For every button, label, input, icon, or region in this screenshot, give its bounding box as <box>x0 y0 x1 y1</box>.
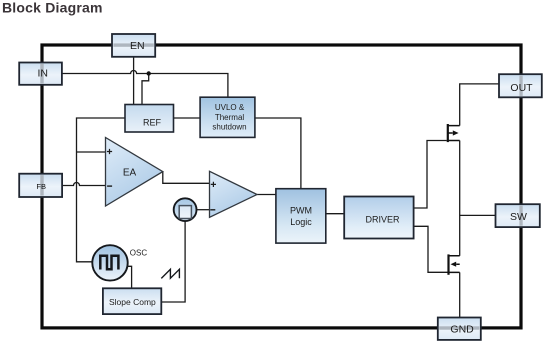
wire OSC to Slope Comp <box>127 266 132 288</box>
wire SW node to SW box <box>460 214 496 216</box>
svg-text:IN: IN <box>37 68 48 80</box>
wire REF to UVLO <box>174 117 201 119</box>
svg-text:Logic: Logic <box>290 217 312 227</box>
wire EN down to REF <box>133 57 135 105</box>
svg-text:DRIVER: DRIVER <box>365 215 400 225</box>
comparator U2 <box>210 171 258 217</box>
box SW <box>496 204 540 227</box>
box Slope Comp <box>103 288 161 314</box>
transistor Q1 <box>448 124 460 142</box>
op-amp EA <box>106 138 163 207</box>
wire Slope Comp to summer <box>161 221 185 302</box>
svg-text:Thermal: Thermal <box>215 113 245 122</box>
box REF <box>125 105 174 133</box>
svg-text:shutdown: shutdown <box>212 123 246 132</box>
wire EA output to comparator plus <box>163 172 210 184</box>
wire DRIVER to Q2 gate <box>414 226 448 272</box>
svg-text:OUT: OUT <box>510 82 533 94</box>
wire PWM Logic to DRIVER <box>326 213 344 215</box>
outer block border <box>42 45 521 328</box>
wire FB to EA minus input (hop over rail) <box>62 183 106 186</box>
wire rail branch to EA plus input <box>77 151 106 153</box>
wire UVLO to PWM Logic top <box>255 118 301 189</box>
summer node (slope add) <box>174 198 197 221</box>
svg-text:Block Diagram: Block Diagram <box>2 0 103 16</box>
svg-text:OSC: OSC <box>130 249 148 258</box>
box PWM Logic <box>276 189 326 243</box>
slope ramp symbol <box>161 269 179 278</box>
svg-text:EA: EA <box>123 168 137 179</box>
wire jog from node to REF top <box>142 74 149 105</box>
svg-text:GND: GND <box>450 323 474 335</box>
svg-text:Slope Comp: Slope Comp <box>109 297 156 307</box>
wire Q1 drain to OUT <box>460 84 499 126</box>
box IN <box>19 63 62 85</box>
box EN <box>112 34 155 57</box>
wire comparator output to PWM Logic <box>257 194 276 196</box>
wire DRIVER to Q1 gate <box>414 141 447 209</box>
svg-text:FB: FB <box>36 182 46 191</box>
svg-text:UVLO &: UVLO & <box>215 103 245 112</box>
box DRIVER <box>344 197 413 239</box>
wire summer to comparator minus <box>197 209 210 211</box>
box FB <box>19 174 62 197</box>
transistor Q2 <box>449 254 460 274</box>
svg-text:SW: SW <box>510 211 527 223</box>
box GND <box>438 318 481 340</box>
node junction dot <box>147 71 151 75</box>
wire REF left rail down to OSC <box>77 118 126 262</box>
wire SW rail between Q1 and Q2 <box>459 141 461 256</box>
box OUT <box>499 74 542 97</box>
svg-text:REF: REF <box>143 117 162 127</box>
svg-text:EN: EN <box>130 40 145 52</box>
box UVLO thermal shutdown <box>200 97 255 137</box>
wire IN to UVLO top (hop over EN wire) <box>62 71 228 98</box>
wire Q2 source to GND <box>459 272 461 317</box>
svg-text:PWM: PWM <box>290 206 312 216</box>
oscillator OSC <box>92 245 147 280</box>
